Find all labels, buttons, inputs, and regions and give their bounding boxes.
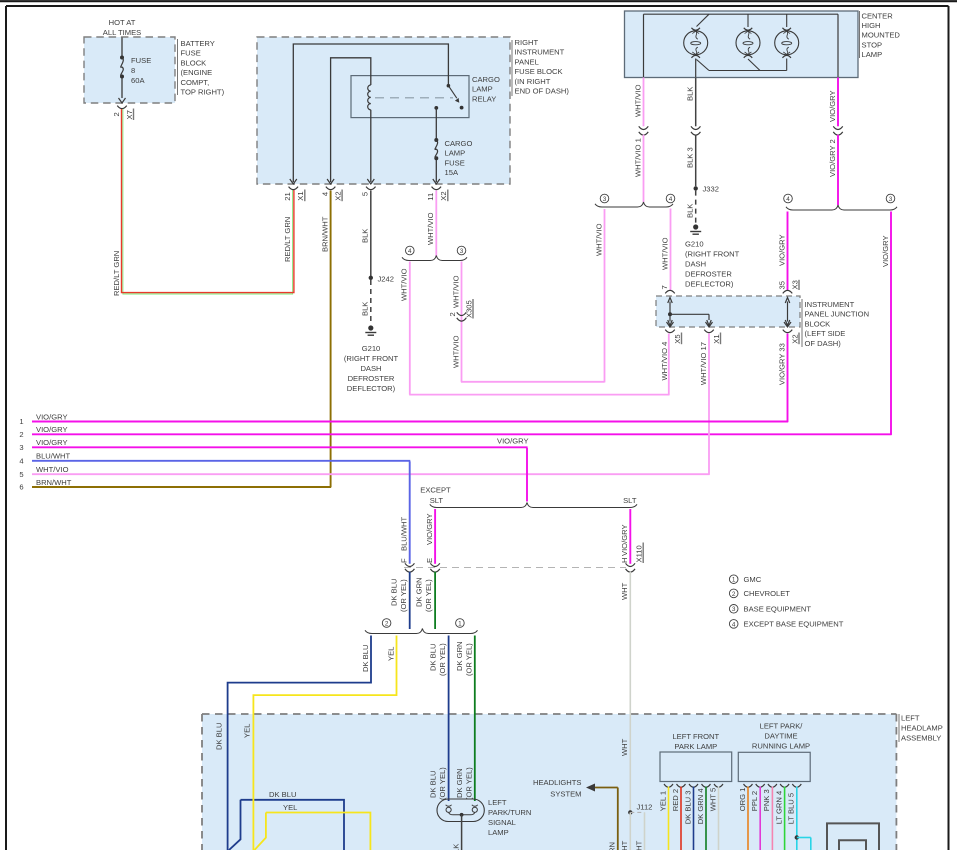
svg-text:RED 2: RED 2	[671, 789, 680, 811]
svg-text:YEL: YEL	[283, 803, 297, 812]
svg-text:H: H	[620, 558, 629, 563]
svg-text:3: 3	[889, 196, 893, 203]
svg-text:ALL TIMES: ALL TIMES	[103, 28, 141, 37]
svg-text:YEL: YEL	[243, 724, 252, 738]
svg-text:WHT/VIO: WHT/VIO	[451, 275, 460, 308]
svg-text:6: 6	[19, 483, 23, 492]
svg-text:(IN RIGHT: (IN RIGHT	[515, 77, 551, 86]
svg-text:VIO/GRY: VIO/GRY	[425, 513, 434, 545]
svg-text:F: F	[400, 558, 409, 563]
svg-text:LEFT FRONT: LEFT FRONT	[672, 732, 719, 741]
svg-text:VIO/GRY: VIO/GRY	[620, 524, 629, 556]
svg-text:BLK: BLK	[686, 204, 695, 218]
svg-text:VIO/GRY: VIO/GRY	[36, 425, 68, 434]
svg-text:VIO/GRY: VIO/GRY	[777, 234, 786, 266]
svg-text:3: 3	[460, 248, 464, 255]
svg-text:WHT/VIO: WHT/VIO	[633, 84, 642, 117]
svg-text:SLT: SLT	[623, 496, 637, 505]
svg-text:8: 8	[131, 66, 135, 75]
svg-text:G210: G210	[362, 344, 381, 353]
svg-text:PPL 2: PPL 2	[750, 791, 759, 811]
svg-text:WHT: WHT	[620, 840, 629, 850]
svg-text:DASH: DASH	[360, 364, 381, 373]
svg-text:(OR YEL): (OR YEL)	[464, 767, 473, 800]
svg-text:HIGH: HIGH	[862, 21, 881, 30]
svg-text:COMPT,: COMPT,	[181, 78, 210, 87]
svg-text:DASH: DASH	[685, 260, 706, 269]
svg-text:2: 2	[448, 312, 457, 316]
svg-text:G210: G210	[685, 240, 704, 249]
svg-text:BLOCK: BLOCK	[181, 58, 207, 67]
svg-text:BATTERY: BATTERY	[181, 39, 215, 48]
svg-text:BLU/WHT: BLU/WHT	[400, 516, 409, 551]
svg-text:X1: X1	[712, 334, 721, 343]
svg-text:BRN: BRN	[608, 842, 617, 850]
svg-text:LAMP: LAMP	[472, 85, 493, 94]
svg-text:2: 2	[385, 620, 389, 627]
svg-text:(OR YEL): (OR YEL)	[438, 767, 447, 800]
svg-text:VIO/GRY 2: VIO/GRY 2	[828, 139, 837, 177]
svg-text:1: 1	[19, 417, 23, 426]
svg-text:WHT: WHT	[620, 582, 629, 600]
svg-text:INSTRUMENT: INSTRUMENT	[515, 48, 565, 57]
svg-text:WHT/VIO: WHT/VIO	[594, 223, 603, 256]
svg-text:X1: X1	[296, 191, 305, 200]
svg-text:HOT AT: HOT AT	[109, 18, 136, 27]
svg-text:OF DASH): OF DASH)	[805, 339, 842, 348]
svg-text:DK BLU: DK BLU	[390, 579, 399, 606]
svg-text:(RIGHT FRONT: (RIGHT FRONT	[344, 354, 399, 363]
svg-text:2: 2	[19, 430, 23, 439]
svg-text:PARK LAMP: PARK LAMP	[674, 742, 717, 751]
svg-text:YEL: YEL	[386, 647, 395, 661]
svg-text:X2: X2	[439, 191, 448, 200]
svg-text:WHT: WHT	[620, 738, 629, 756]
svg-text:LT GRN 4: LT GRN 4	[774, 791, 783, 824]
svg-text:BLK: BLK	[361, 302, 370, 316]
svg-text:WHT 5: WHT 5	[708, 788, 717, 812]
svg-text:VIO/GRY: VIO/GRY	[497, 437, 529, 446]
svg-text:RED/LT GRN: RED/LT GRN	[112, 251, 121, 296]
svg-text:LAMP: LAMP	[488, 828, 509, 837]
svg-text:LAMP: LAMP	[862, 50, 883, 59]
svg-text:X5: X5	[673, 334, 682, 343]
svg-text:FUSE: FUSE	[131, 56, 151, 65]
svg-text:VIO/GRY: VIO/GRY	[36, 412, 68, 421]
svg-text:BLOCK: BLOCK	[805, 319, 831, 328]
svg-text:5: 5	[19, 470, 23, 479]
svg-text:HEADLIGHTS: HEADLIGHTS	[533, 778, 582, 787]
svg-text:CHEVROLET: CHEVROLET	[744, 589, 791, 598]
svg-text:(OR YEL): (OR YEL)	[424, 579, 433, 612]
svg-text:60A: 60A	[131, 76, 145, 85]
svg-text:FUSE: FUSE	[445, 158, 465, 167]
svg-text:WHT/VIO 4: WHT/VIO 4	[660, 342, 669, 381]
svg-text:WHT/VIO: WHT/VIO	[36, 465, 69, 474]
svg-text:RELAY: RELAY	[472, 94, 496, 103]
svg-text:LAMP: LAMP	[445, 149, 466, 158]
svg-text:VIO/GRY: VIO/GRY	[36, 438, 68, 447]
svg-text:DK BLU: DK BLU	[429, 771, 438, 798]
svg-text:STOP: STOP	[862, 40, 883, 49]
svg-text:TOP RIGHT): TOP RIGHT)	[181, 88, 225, 97]
svg-text:11: 11	[426, 193, 435, 201]
svg-text:BLU/WHT: BLU/WHT	[36, 452, 71, 461]
svg-text:4: 4	[320, 192, 329, 196]
svg-text:VIO/GRY: VIO/GRY	[828, 90, 837, 122]
svg-text:CARGO: CARGO	[472, 75, 500, 84]
svg-text:X305: X305	[464, 300, 473, 318]
svg-text:EXCEPT BASE EQUIPMENT: EXCEPT BASE EQUIPMENT	[744, 620, 844, 629]
svg-text:WHT: WHT	[634, 840, 643, 850]
svg-text:CARGO: CARGO	[445, 139, 473, 148]
svg-text:DEFLECTOR): DEFLECTOR)	[685, 280, 734, 289]
svg-text:3: 3	[603, 196, 607, 203]
svg-text:X7: X7	[125, 110, 134, 119]
svg-text:PARK/TURN: PARK/TURN	[488, 808, 531, 817]
svg-text:(OR YEL): (OR YEL)	[438, 643, 447, 676]
svg-text:DEFROSTER: DEFROSTER	[348, 374, 395, 383]
svg-text:BASE EQUIPMENT: BASE EQUIPMENT	[744, 605, 812, 614]
svg-text:FUSE: FUSE	[181, 49, 201, 58]
svg-text:(LEFT SIDE: (LEFT SIDE	[805, 329, 846, 338]
svg-text:4: 4	[786, 196, 790, 203]
svg-text:BLK: BLK	[361, 229, 370, 243]
svg-text:(ENGINE: (ENGINE	[181, 68, 213, 77]
svg-text:DK BLU: DK BLU	[215, 723, 224, 750]
svg-text:3: 3	[732, 606, 736, 613]
svg-text:WHT/VIO: WHT/VIO	[660, 237, 669, 270]
svg-text:FUSE BLOCK: FUSE BLOCK	[515, 67, 563, 76]
svg-text:BLK 3: BLK 3	[686, 147, 695, 168]
svg-text:2: 2	[732, 591, 736, 598]
svg-text:DK BLU: DK BLU	[361, 645, 370, 672]
svg-text:5: 5	[361, 192, 370, 196]
svg-text:RUNNING LAMP: RUNNING LAMP	[752, 742, 810, 751]
svg-text:E: E	[425, 558, 434, 563]
svg-text:DK GRN: DK GRN	[415, 577, 424, 607]
svg-text:J242: J242	[378, 275, 394, 284]
svg-text:HEADLAMP: HEADLAMP	[901, 724, 943, 733]
svg-text:CENTER: CENTER	[862, 12, 894, 21]
svg-text:RED/LT GRN: RED/LT GRN	[283, 217, 292, 262]
svg-text:X110: X110	[635, 545, 644, 562]
svg-text:DK GRN: DK GRN	[455, 641, 464, 671]
svg-text:DK BLU: DK BLU	[429, 644, 438, 671]
svg-text:15A: 15A	[445, 168, 459, 177]
svg-text:PANEL JUNCTION: PANEL JUNCTION	[805, 310, 870, 319]
svg-text:4: 4	[19, 456, 23, 465]
svg-text:X2: X2	[790, 334, 799, 343]
svg-text:LEFT: LEFT	[901, 714, 920, 723]
svg-text:35: 35	[777, 281, 786, 289]
svg-text:PNK 3: PNK 3	[762, 789, 771, 811]
svg-text:(OR YEL): (OR YEL)	[399, 579, 408, 612]
svg-text:ASSEMBLY: ASSEMBLY	[901, 734, 941, 743]
svg-text:4: 4	[732, 621, 736, 628]
svg-text:DK BLU: DK BLU	[269, 790, 296, 799]
svg-text:VIO/GRY: VIO/GRY	[881, 235, 890, 267]
svg-text:X3: X3	[790, 280, 799, 289]
svg-text:DK GRN 4: DK GRN 4	[696, 788, 705, 824]
svg-text:LEFT PARK/: LEFT PARK/	[760, 722, 804, 731]
svg-text:MOUNTED: MOUNTED	[862, 31, 901, 40]
svg-text:BRN/WHT: BRN/WHT	[320, 216, 329, 252]
svg-text:WHT/VIO 17: WHT/VIO 17	[699, 342, 708, 385]
svg-text:J332: J332	[703, 185, 719, 194]
svg-text:WHT/VIO: WHT/VIO	[426, 212, 435, 245]
svg-text:SIGNAL: SIGNAL	[488, 818, 516, 827]
svg-text:J112: J112	[637, 803, 653, 812]
svg-text:WHT/VIO: WHT/VIO	[451, 335, 460, 368]
svg-text:ORG 1: ORG 1	[738, 788, 747, 812]
svg-text:PANEL: PANEL	[515, 57, 539, 66]
svg-text:X2: X2	[333, 191, 342, 200]
svg-text:SLT: SLT	[430, 496, 444, 505]
svg-text:DK GRN: DK GRN	[455, 768, 464, 798]
svg-text:4: 4	[669, 196, 673, 203]
svg-text:SYSTEM: SYSTEM	[550, 790, 581, 799]
svg-text:1: 1	[732, 577, 736, 584]
svg-text:(RIGHT FRONT: (RIGHT FRONT	[685, 250, 740, 259]
svg-text:1: 1	[458, 620, 462, 627]
svg-text:WHT/VIO: WHT/VIO	[400, 268, 409, 301]
svg-text:4: 4	[408, 248, 412, 255]
svg-text:BRN/WHT: BRN/WHT	[36, 478, 72, 487]
svg-text:7: 7	[660, 285, 669, 289]
svg-text:(OR YEL): (OR YEL)	[464, 643, 473, 676]
svg-text:DK BLU 3: DK BLU 3	[683, 791, 692, 825]
svg-text:DEFLECTOR): DEFLECTOR)	[347, 384, 396, 393]
svg-text:WHT/VIO 1: WHT/VIO 1	[633, 138, 642, 177]
svg-text:2: 2	[112, 112, 121, 116]
svg-text:VIO/GRY 33: VIO/GRY 33	[777, 343, 786, 385]
svg-text:EXCEPT: EXCEPT	[420, 486, 451, 495]
svg-text:LT BLU 5: LT BLU 5	[787, 793, 796, 824]
svg-text:DAYTIME: DAYTIME	[764, 732, 797, 741]
svg-text:BLK: BLK	[686, 87, 695, 101]
svg-text:BLK: BLK	[451, 844, 460, 850]
svg-text:INSTRUMENT: INSTRUMENT	[805, 300, 855, 309]
svg-text:RIGHT: RIGHT	[515, 38, 539, 47]
svg-text:LEFT: LEFT	[488, 798, 507, 807]
svg-text:YEL 1: YEL 1	[658, 791, 667, 811]
svg-text:GMC: GMC	[744, 575, 762, 584]
svg-text:DEFROSTER: DEFROSTER	[685, 270, 732, 279]
svg-text:3: 3	[19, 443, 23, 452]
svg-text:21: 21	[283, 192, 292, 200]
svg-text:END OF DASH): END OF DASH)	[515, 87, 570, 96]
